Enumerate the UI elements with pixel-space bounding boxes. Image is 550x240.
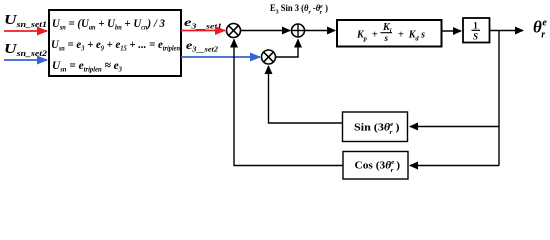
svg-text:1: 1 [473,21,478,31]
svg-text:s: s [384,33,389,43]
multiplier M1 [227,24,241,38]
svg-text:e3__set2: e3__set2 [186,38,219,54]
wire integrator to output theta [490,30,524,32]
wire feedback to Sin block [410,126,499,128]
wire e_3_set1 (red arrow) to multiplier M1 [181,30,225,32]
svg-text:Usn_set1: Usn_set1 [4,13,47,29]
wire PID to integrator block [442,30,462,32]
multiplier M2 [262,50,276,64]
Sin block [343,112,408,142]
svg-text:S: S [473,32,478,42]
svg-text:Usn = (Uan + Ubn + Ucn) / 3: Usn = (Uan + Ubn + Ucn) / 3 [52,16,165,32]
svg-text:Usn = e3 + e9 + e15 + ... = et: Usn = e3 + e9 + e15 + ... = etriplen [51,37,180,53]
wire U_sn_set2 input (blue arrow) [4,59,47,61]
wire M2 to summer S1 (right then up) [276,40,299,58]
wire M1 to summer S1 [241,30,291,32]
wire U_sn_set1 input (red arrow) [4,30,47,32]
wire Sin output to multiplier M2 [269,66,343,123]
svg-text:E3 Sin 3 (θr -θer ): E3 Sin 3 (θr -θer ) [270,3,328,16]
svg-text:e3__set1: e3__set1 [184,15,222,31]
equation block U1 [49,10,181,76]
integrator block 1/S [463,18,490,43]
Cos block [343,152,408,180]
svg-text:Usn_set2: Usn_set2 [4,42,47,58]
PID block Kp+Ki/s+Kds [337,20,442,47]
summer S1 [292,24,305,37]
wire e_3_set2 (blue arrow) to multiplier M2 [181,56,260,58]
wire feedback vertical from output junction [498,31,500,166]
svg-text:θer: θer [533,18,547,41]
wire summer S1 to PID block [305,30,336,32]
wire Cos output to multiplier M1 [234,40,343,166]
wire feedback to Cos block [410,165,499,167]
